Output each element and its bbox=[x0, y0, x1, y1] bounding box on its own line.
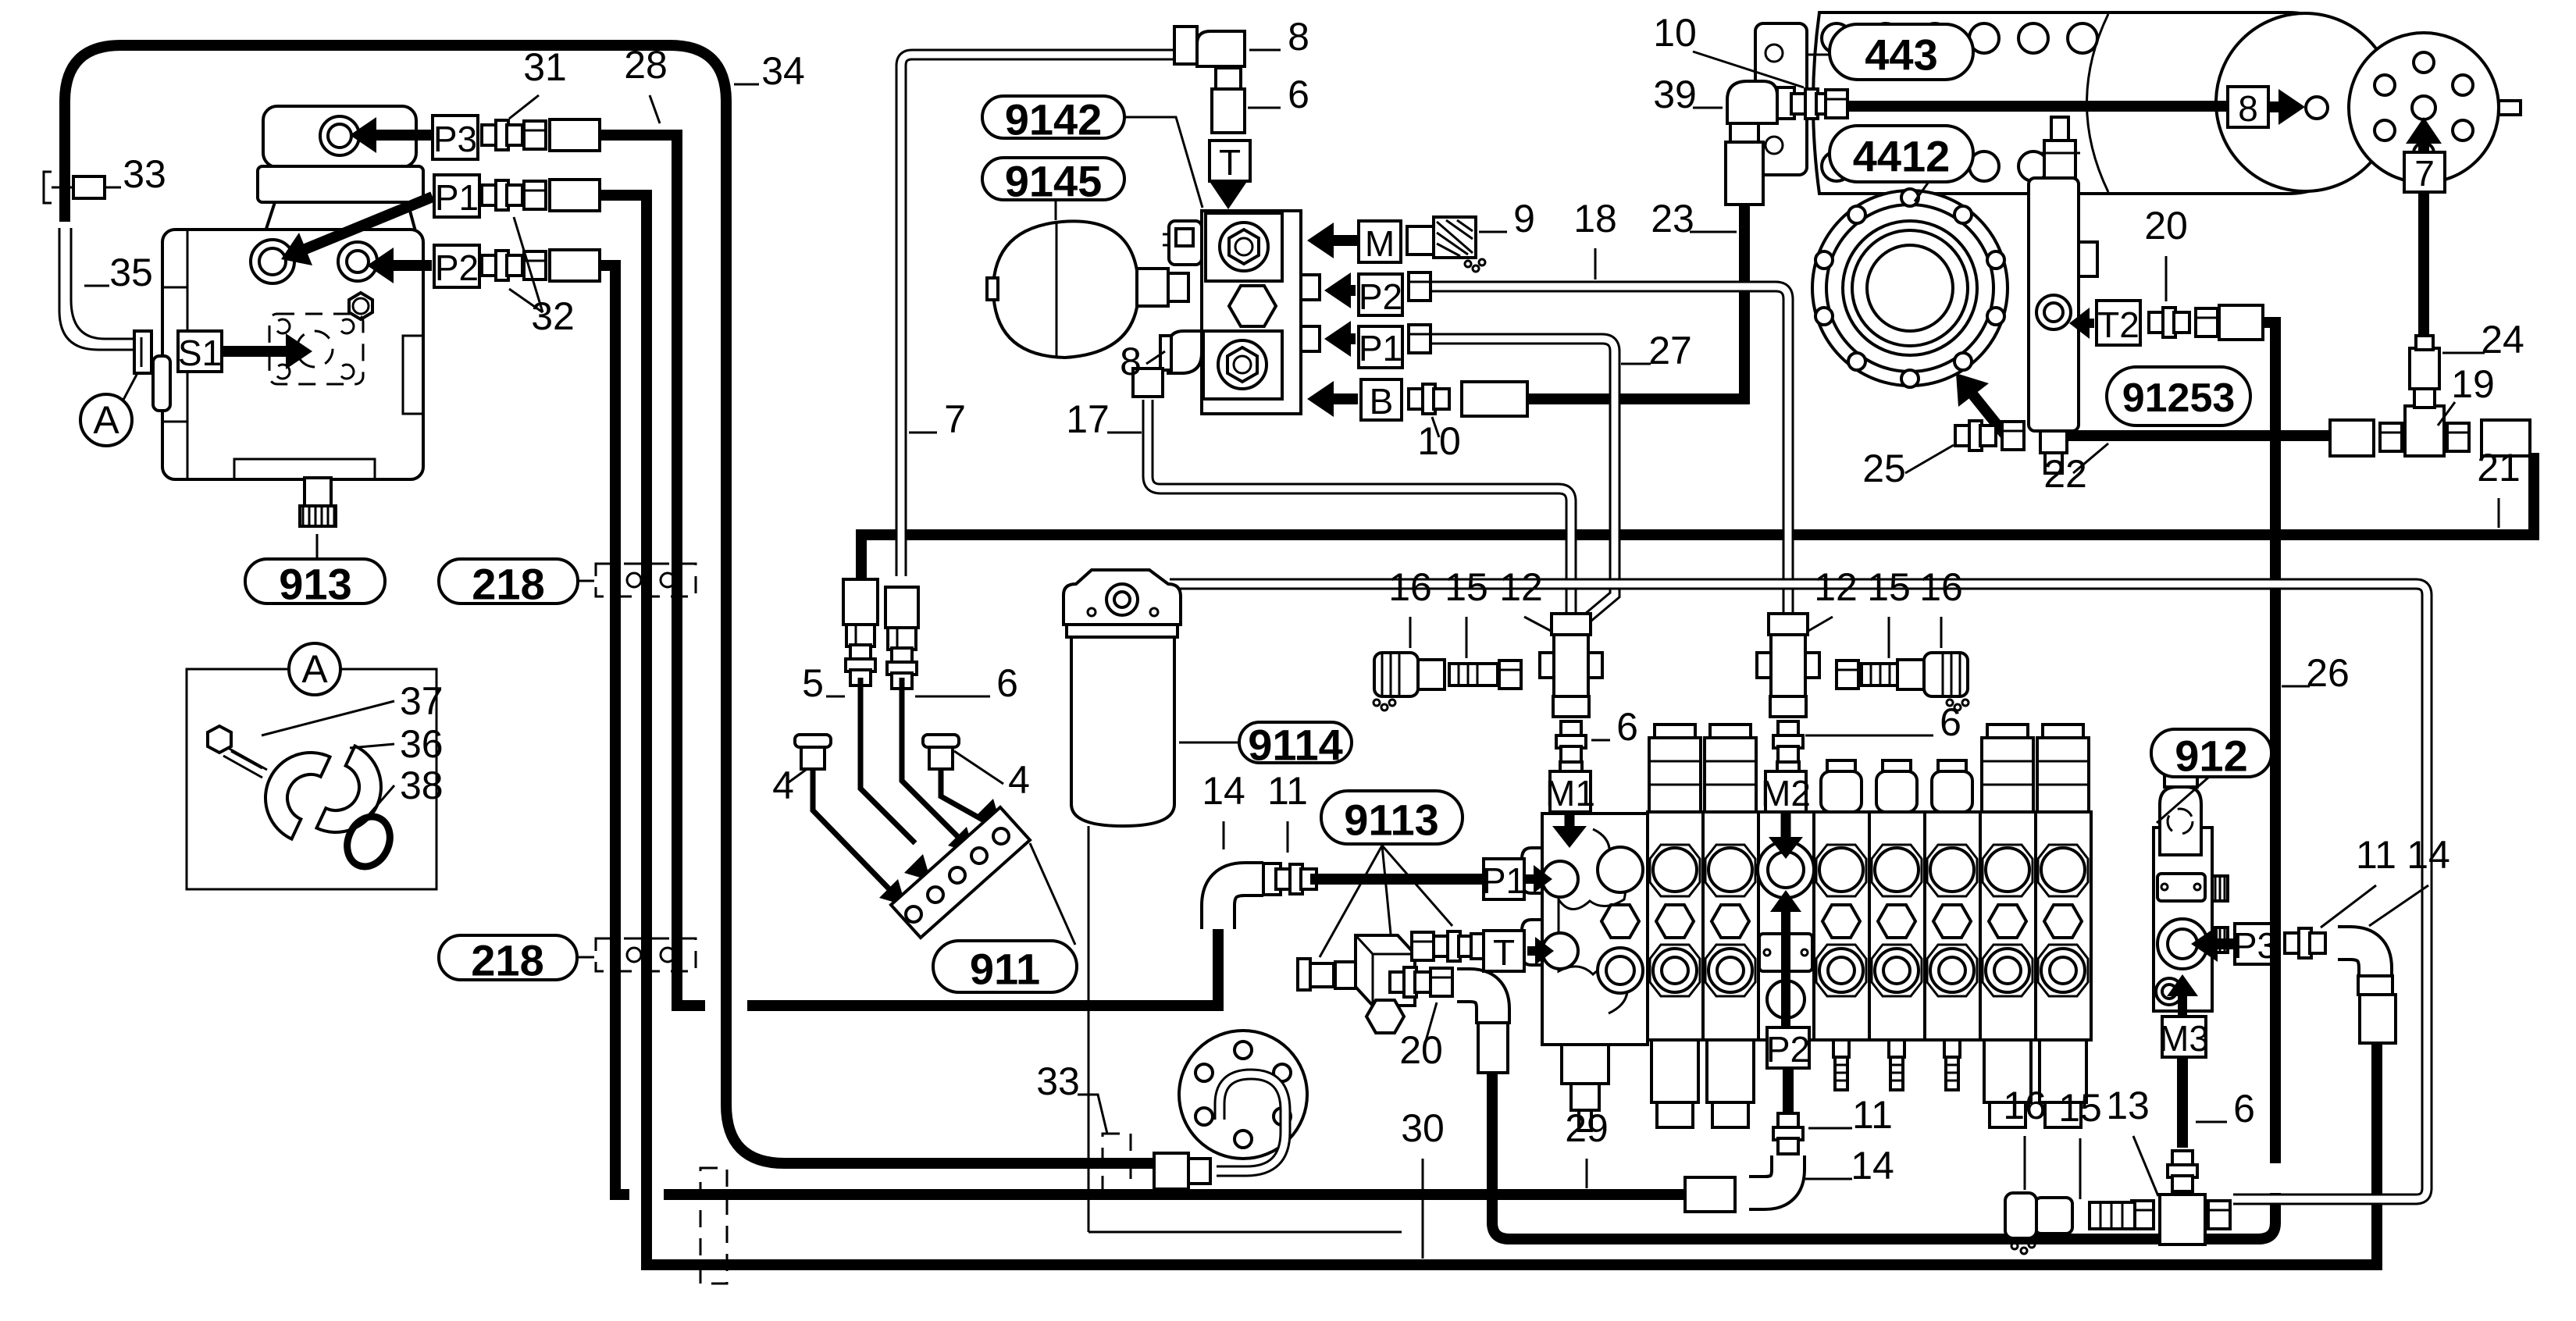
node P2 pump bbox=[434, 245, 479, 287]
node callout 912 bbox=[2151, 729, 2271, 777]
wire arrow into pump P3 bbox=[376, 130, 432, 141]
svg-text:26: 26 bbox=[2306, 651, 2350, 695]
pump 913 body bbox=[263, 106, 416, 167]
svg-text:16: 16 bbox=[1919, 565, 1963, 609]
node B 9142 bbox=[1361, 379, 1402, 420]
svg-text:33: 33 bbox=[123, 152, 166, 196]
plug cap 4 left bbox=[795, 735, 831, 747]
node T 9142 bbox=[1210, 141, 1250, 181]
svg-text:T: T bbox=[1493, 932, 1515, 973]
svg-text:23: 23 bbox=[1651, 197, 1694, 240]
wire arrow M2 into valve bbox=[1781, 814, 1791, 837]
fitting nipple 20 T2 bbox=[2149, 312, 2164, 333]
fitting hose end pump line bbox=[550, 119, 600, 151]
wire hose P2 valve riser bbox=[1783, 1068, 1794, 1115]
wire hoses into manifold 911 bbox=[813, 769, 890, 890]
svg-text:27: 27 bbox=[1648, 329, 1692, 372]
wire pipe return line to tee 13 bbox=[1170, 584, 2427, 1199]
svg-text:913: 913 bbox=[279, 560, 351, 609]
wire hose 26 T2 to 9113 valve bbox=[2261, 322, 2275, 1163]
fitting nut P1 pilot bbox=[1409, 325, 1431, 353]
wire arrow into pump P1 bbox=[305, 197, 433, 249]
svg-text:P2: P2 bbox=[1359, 276, 1402, 317]
wire hose 23 B port to brake 443 bbox=[1527, 205, 1744, 399]
valve outlet block with P3 M3 bbox=[2154, 828, 2212, 1011]
fitting 24 bbox=[2410, 348, 2439, 389]
fitting sphere to block bbox=[1137, 269, 1168, 306]
svg-text:443: 443 bbox=[1865, 30, 1937, 80]
wire arrow S1 into pump bbox=[220, 346, 286, 357]
svg-text:M2: M2 bbox=[1761, 773, 1811, 814]
svg-text:18: 18 bbox=[1573, 197, 1617, 240]
svg-text:M1: M1 bbox=[1545, 773, 1595, 814]
svg-text:M: M bbox=[1365, 223, 1395, 264]
fitting nut T chain bbox=[1412, 932, 1434, 960]
fitting tee 12 M2 bbox=[1769, 614, 1808, 635]
svg-text:29: 29 bbox=[1565, 1106, 1609, 1150]
fitting nut 19 left bbox=[2380, 423, 2402, 451]
fitting 5 bbox=[843, 579, 878, 625]
svg-text:13: 13 bbox=[2106, 1084, 2150, 1127]
node callout 9142 bbox=[982, 96, 1124, 138]
fitting 6 middle bbox=[885, 587, 918, 628]
91253 bottom fitting bbox=[2040, 431, 2067, 453]
S1 connector bbox=[134, 331, 151, 373]
wire hose 29 pump P2 to valve P2 bbox=[600, 265, 1687, 1195]
tank flange port bbox=[1179, 1031, 1307, 1159]
svg-text:15: 15 bbox=[1867, 565, 1911, 609]
accumulator 9145 sphere bbox=[993, 221, 1138, 358]
right side stubs of 9142 bbox=[1301, 275, 1320, 300]
node P3 valve bbox=[2235, 924, 2275, 964]
svg-text:218: 218 bbox=[471, 936, 543, 985]
fitting chain at T port bbox=[1298, 959, 1310, 990]
wire arrow P2 into 9142 bbox=[1351, 285, 1356, 296]
svg-text:34: 34 bbox=[761, 49, 805, 93]
svg-text:6: 6 bbox=[2233, 1087, 2255, 1131]
fitting nipple 5 bbox=[850, 645, 871, 660]
svg-text:91253: 91253 bbox=[2122, 376, 2236, 421]
node T2 91253 bbox=[2097, 301, 2140, 345]
fitting nut 20 T2 bbox=[2196, 308, 2218, 336]
svg-text:911: 911 bbox=[970, 945, 1040, 994]
node P1 9142 bbox=[1359, 326, 1402, 368]
elbow 8 lower left of 9142 bbox=[1168, 331, 1202, 373]
valve section 1 bbox=[1648, 812, 1703, 1040]
svg-text:21: 21 bbox=[2477, 446, 2521, 490]
plug cap 4 right bbox=[923, 735, 959, 747]
wire arrow 7 into 443 bbox=[2418, 144, 2429, 153]
svg-text:20: 20 bbox=[2144, 204, 2188, 247]
node callout 91253 bbox=[2107, 367, 2250, 425]
node P2 valve bbox=[1767, 1027, 1809, 1068]
fitting nut P2 pilot bbox=[1409, 272, 1431, 301]
relief valve 91253 bbox=[2029, 178, 2079, 431]
node callout 911 bbox=[933, 941, 1077, 992]
elbow 39 bbox=[1727, 81, 1777, 123]
fitting nipple B bbox=[1409, 389, 1424, 409]
svg-text:10: 10 bbox=[1417, 419, 1461, 463]
svg-text:33: 33 bbox=[1036, 1059, 1080, 1103]
svg-text:28: 28 bbox=[624, 43, 668, 87]
svg-text:5: 5 bbox=[802, 661, 824, 705]
svg-text:B: B bbox=[1370, 381, 1394, 422]
fitting elbow 14 P1 feed bbox=[1218, 879, 1263, 929]
svg-text:19: 19 bbox=[2451, 362, 2495, 406]
fitting hose end 22 right bbox=[2330, 420, 2374, 456]
node callout 218 upper bbox=[439, 559, 578, 604]
svg-text:15: 15 bbox=[1445, 565, 1488, 609]
svg-text:6: 6 bbox=[996, 661, 1018, 705]
svg-text:36: 36 bbox=[400, 722, 444, 766]
svg-text:32: 32 bbox=[531, 294, 575, 338]
wire arrow T into 9142 bbox=[1223, 182, 1234, 183]
svg-text:P2: P2 bbox=[435, 247, 479, 288]
detail A box flange clamp bbox=[187, 669, 436, 889]
valve block 9142 bbox=[1202, 211, 1301, 414]
wire hose 443 port 7 riser bbox=[2418, 192, 2429, 351]
wire hose to P1 valve bbox=[1310, 874, 1484, 885]
svg-text:4412: 4412 bbox=[1853, 132, 1951, 181]
fitting nut 10 union bbox=[1826, 90, 1847, 118]
wire arrow T into valve bbox=[1527, 946, 1535, 956]
elbow 8 top bbox=[1197, 31, 1245, 66]
svg-text:8: 8 bbox=[1120, 340, 1142, 383]
solenoid upper left of 9142 bbox=[1169, 221, 1202, 265]
svg-text:11: 11 bbox=[2356, 833, 2396, 877]
wire arrow P1 into valve bbox=[1526, 874, 1534, 884]
fitting nipple 6 bbox=[892, 648, 912, 664]
node P1 pump bbox=[434, 175, 479, 217]
wire hose 26 redraw over box bbox=[2270, 898, 2281, 992]
tee 13 bbox=[2160, 1195, 2205, 1244]
fitting nipple pump line bbox=[482, 125, 497, 145]
svg-text:9114: 9114 bbox=[1248, 721, 1343, 770]
node P1 valve bbox=[1484, 859, 1524, 899]
manifold plate 911 bbox=[891, 807, 1030, 938]
node M 9142 bbox=[1359, 221, 1401, 262]
svg-text:14: 14 bbox=[2407, 833, 2450, 877]
svg-text:P1: P1 bbox=[435, 177, 479, 218]
clamp 33 on hose 34 bbox=[700, 1168, 727, 1284]
wire hose 28 pump P3 to valve P1 bbox=[600, 135, 1218, 1006]
node M3 valve bbox=[2162, 1017, 2206, 1057]
fitting hose end 26 hose end bbox=[2219, 305, 2263, 340]
clamp 33 on filter drain bbox=[1103, 1134, 1131, 1191]
fitting nut pump line bbox=[524, 181, 546, 209]
svg-text:4: 4 bbox=[772, 764, 794, 807]
wire pipe 7 tank line to elbow 8 bbox=[901, 55, 1173, 576]
fitting coupler 16 M2 chain mirrored bbox=[1924, 653, 1968, 696]
fitting nipple M2 vert bbox=[1778, 721, 1798, 737]
fitting nut M1 chain bbox=[1499, 660, 1521, 689]
node M2 valve bbox=[1765, 771, 1806, 812]
svg-text:4: 4 bbox=[1008, 758, 1030, 802]
fitting coupler 16 M1 chain bbox=[1374, 653, 1418, 696]
fitting nipple 11 to P1 bbox=[1276, 869, 1292, 889]
svg-text:9145: 9145 bbox=[1005, 157, 1103, 206]
valve section 3 bbox=[1758, 812, 1814, 1040]
wire hose 30 pump P1 to valve P3 bbox=[600, 195, 2377, 1265]
svg-text:218: 218 bbox=[472, 560, 544, 609]
fitting nipple M1 vert bbox=[1561, 721, 1581, 737]
svg-text:9: 9 bbox=[1513, 197, 1535, 240]
clamp 218 lower bbox=[596, 938, 696, 971]
clamp 33 top left bbox=[73, 176, 105, 198]
motor 4412 flange bbox=[1812, 190, 2008, 386]
valve section 2 bbox=[1703, 812, 1758, 1040]
top fittings T into 9142 bbox=[1212, 89, 1245, 133]
pump shaft bbox=[305, 478, 331, 506]
clamp halves 36 bbox=[251, 738, 330, 839]
fitting hose end 21 right bbox=[2482, 420, 2530, 456]
fitting elbow 14 P2 riser bbox=[1749, 1155, 1788, 1193]
wire hose 34 main suction line bbox=[65, 45, 1156, 1163]
fitting nut 5 bbox=[846, 625, 875, 646]
wire pipe 18 P2 pilot to M2 tee bbox=[1431, 287, 1788, 618]
svg-text:37: 37 bbox=[400, 679, 444, 723]
svg-text:7: 7 bbox=[2414, 153, 2435, 194]
fitting nut pump line bbox=[524, 121, 546, 149]
svg-text:11: 11 bbox=[1852, 1093, 1893, 1137]
3d elbow block bbox=[1356, 935, 1415, 1006]
svg-text:39: 39 bbox=[1653, 73, 1697, 116]
svg-text:16: 16 bbox=[1388, 565, 1432, 609]
fitting nipple T chain bbox=[1434, 936, 1449, 956]
fitting nut pump line bbox=[524, 251, 546, 280]
valve section 6 bbox=[1925, 812, 1980, 1040]
O-ring 38 bbox=[340, 810, 397, 873]
fitting nipple 6 M3 bbox=[2172, 1151, 2193, 1166]
svg-text:22: 22 bbox=[2043, 452, 2087, 496]
svg-text:17: 17 bbox=[1066, 397, 1110, 441]
wire arrow B into 9142 bbox=[1334, 393, 1358, 404]
svg-text:T2: T2 bbox=[2097, 304, 2140, 345]
wire arrow P2 into valve bbox=[1781, 912, 1790, 1027]
svg-text:6: 6 bbox=[1940, 700, 1961, 744]
valve section 8 bbox=[2036, 812, 2091, 1040]
wire arrow P1 into 9142 bbox=[1351, 333, 1356, 344]
node M1 valve bbox=[1550, 771, 1591, 812]
fitting nut 19 right bbox=[2447, 423, 2469, 451]
wire J pipe into tank flange bbox=[1217, 1074, 1285, 1171]
fitting hose end B bbox=[1462, 382, 1527, 416]
node callout 443 bbox=[1830, 24, 1973, 80]
node callout 9114 bbox=[1239, 722, 1352, 763]
svg-text:P1: P1 bbox=[1482, 860, 1526, 901]
node 8 443 port bbox=[2228, 87, 2268, 127]
wire arrow into pump P2 bbox=[394, 260, 432, 271]
svg-text:9113: 9113 bbox=[1344, 796, 1439, 845]
wire hose 23 to brake redraw bbox=[1739, 205, 1750, 234]
svg-text:7: 7 bbox=[944, 397, 966, 441]
clamp 218 upper bbox=[596, 564, 696, 596]
svg-text:P1: P1 bbox=[1359, 328, 1402, 369]
wire arrow M1 into valve bbox=[1565, 814, 1575, 826]
fitting nipple 25 bbox=[1955, 425, 1971, 446]
valve section 5 bbox=[1869, 812, 1925, 1040]
coupler 16 bottom bbox=[2035, 1198, 2072, 1234]
svg-text:24: 24 bbox=[2481, 318, 2524, 361]
wire arrow 25 into motor bbox=[1973, 395, 2015, 447]
wire pipe 27 P1 pilot to M1 tee bbox=[1431, 339, 1615, 620]
wire pipe 17 from valve 9142 to M1 tee bbox=[1148, 400, 1571, 618]
crossing break hose 29 over hose 30 riser bbox=[629, 1180, 664, 1210]
node P2 9142 bbox=[1359, 274, 1402, 315]
fitting nipple 11 P3 bbox=[2285, 933, 2300, 953]
svg-text:14: 14 bbox=[1202, 769, 1245, 813]
fitting nipple 11 P2 riser bbox=[1778, 1113, 1798, 1129]
svg-text:6: 6 bbox=[1616, 705, 1638, 749]
wire arrow M into 9142 bbox=[1334, 235, 1357, 246]
fitting nut tee13 R bbox=[2208, 1201, 2230, 1229]
svg-text:A: A bbox=[93, 398, 119, 442]
fitting test point 9 bbox=[1407, 226, 1434, 255]
fitting nipple pump line bbox=[482, 255, 497, 276]
wire arrow P3 into valve bbox=[2218, 938, 2233, 949]
node T valve bbox=[1484, 931, 1524, 971]
node callout 9113 bbox=[1321, 791, 1463, 844]
bolt 37 bbox=[208, 726, 231, 753]
fitting elbow 14 P3 riser bbox=[2338, 943, 2375, 981]
svg-text:8: 8 bbox=[1288, 15, 1309, 59]
svg-text:8: 8 bbox=[2238, 88, 2258, 129]
crossing break hose 28 over hose 34 bbox=[705, 990, 747, 1021]
node S1 pump bbox=[178, 331, 222, 372]
svg-text:M3: M3 bbox=[2159, 1018, 2209, 1059]
fitting nut M2 chain bbox=[1837, 660, 1858, 689]
svg-text:9142: 9142 bbox=[1005, 95, 1103, 144]
fitting nut 25 bbox=[2002, 422, 2024, 450]
svg-text:15: 15 bbox=[2058, 1086, 2102, 1130]
fitting nipple 10 union bbox=[1791, 94, 1807, 114]
svg-text:10: 10 bbox=[1653, 11, 1697, 55]
wire pipe 35 suction pilot bbox=[59, 228, 134, 350]
fitting tee 12 M1 bbox=[1552, 614, 1591, 635]
wire hose M3 riser bbox=[2177, 1057, 2188, 1148]
svg-text:31: 31 bbox=[523, 45, 567, 89]
fitting nut 6 bbox=[888, 628, 916, 650]
svg-text:20: 20 bbox=[1399, 1028, 1443, 1072]
node 7 443 port bbox=[2404, 152, 2445, 192]
svg-text:12: 12 bbox=[1814, 565, 1858, 609]
valve section 7 bbox=[1980, 812, 2036, 1040]
fitting nut 20 chain bbox=[1431, 968, 1452, 996]
fitting nipple 20 chain bbox=[1390, 972, 1406, 992]
svg-text:P3: P3 bbox=[433, 119, 477, 159]
svg-text:25: 25 bbox=[1862, 447, 1906, 490]
node callout 9145 bbox=[982, 158, 1124, 200]
fitting hose end on hose 34 bbox=[1154, 1153, 1188, 1189]
svg-text:T: T bbox=[1219, 142, 1241, 183]
node callout 4412 bbox=[1830, 126, 1973, 182]
wire hose 22 to motor 4412 bbox=[2046, 430, 2335, 441]
node P3 pump bbox=[433, 116, 478, 159]
node callout 218 lower bbox=[439, 935, 577, 980]
fitting nipple pump line bbox=[482, 185, 497, 205]
wire arrow T2 into 91253 bbox=[2090, 319, 2094, 328]
svg-text:6: 6 bbox=[1288, 73, 1309, 116]
valve section 4 bbox=[1814, 812, 1869, 1040]
svg-text:14: 14 bbox=[1851, 1144, 1894, 1187]
fitting hose end pump line bbox=[550, 250, 600, 281]
fitting elbow 20 elbow bbox=[1457, 985, 1493, 1024]
svg-text:16: 16 bbox=[2003, 1084, 2047, 1127]
svg-text:912: 912 bbox=[2175, 732, 2247, 781]
fitting hose end 23 riser bbox=[1726, 142, 1763, 205]
svg-text:12: 12 bbox=[1499, 565, 1543, 609]
control valve 9113 inlet block bbox=[1542, 814, 1648, 1045]
filter 9114 bbox=[1064, 570, 1181, 625]
svg-text:35: 35 bbox=[109, 251, 153, 294]
node callout 913 pump bbox=[245, 559, 385, 604]
svg-text:P2: P2 bbox=[1766, 1029, 1810, 1070]
svg-text:30: 30 bbox=[1401, 1106, 1445, 1150]
svg-text:11: 11 bbox=[1267, 769, 1308, 813]
fitting hose end pump line bbox=[550, 180, 600, 211]
fitting hose end 29 right bbox=[1685, 1177, 1735, 1212]
wire hose 21 long pressure line bbox=[861, 453, 2534, 584]
svg-text:S1: S1 bbox=[178, 333, 222, 373]
fitting nut tee13 L bbox=[2132, 1201, 2154, 1229]
wire filter drain line bbox=[1088, 826, 1402, 1232]
brake 443 assembly bbox=[1755, 23, 1807, 175]
svg-text:A: A bbox=[301, 647, 328, 691]
wire arrow M3 into valve bbox=[2178, 996, 2187, 1023]
svg-text:38: 38 bbox=[400, 764, 444, 807]
node A pump bbox=[80, 394, 132, 446]
wire arrow 8 into 443 bbox=[2270, 101, 2278, 112]
